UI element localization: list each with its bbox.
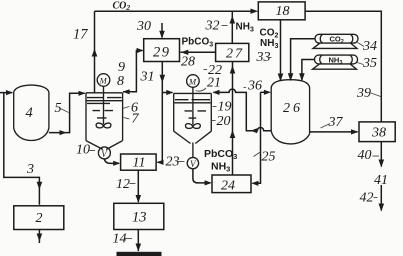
- svg-text:4: 4: [26, 105, 33, 121]
- svg-text:13: 13: [132, 210, 147, 226]
- svg-text:32: 32: [205, 19, 220, 34]
- liquid level tank 19: [175, 100, 211, 118]
- stand for cylinder 34: [313, 43, 357, 48]
- svg-text:CO2: CO2: [113, 1, 131, 13]
- wire stream 36: vessel 26 bottom-left to tank 19: [214, 89, 272, 131]
- svg-text:3: 3: [26, 162, 34, 177]
- valve 10 circle: [98, 147, 110, 159]
- svg-text:35: 35: [362, 56, 377, 71]
- svg-text:28: 28: [181, 55, 195, 70]
- svg-text:26: 26: [283, 101, 303, 116]
- wire valve 23 to box 24: [193, 169, 211, 183]
- wire 28: from box 27 left into box 29 right: [181, 51, 216, 53]
- svg-text:25: 25: [262, 150, 276, 165]
- svg-text:39: 39: [356, 86, 371, 101]
- box 2: [14, 206, 64, 230]
- wire output below box 2: [38, 230, 40, 244]
- motor M tank 19: [187, 75, 200, 88]
- bottom apparatus bar (cropped): [117, 252, 162, 256]
- agitator shaft tank 6: [103, 86, 105, 124]
- wire line 17 vertical: [94, 11, 96, 92]
- wire stream 37: vessel 26 to box 38: [310, 131, 358, 133]
- arrow up on line 17: [92, 49, 98, 57]
- wire from tank6 top-right up to box 29 left (streams 8/9): [123, 51, 143, 92]
- agitator shaft tank 19: [192, 87, 194, 125]
- wire stream 5: vessel 4 to tank 6: [49, 93, 85, 132]
- box 13: [114, 203, 164, 229]
- wire box18 bottom down into vessel 26 (stream 33): [280, 20, 282, 80]
- svg-text:19: 19: [218, 100, 232, 115]
- svg-text:31: 31: [140, 70, 155, 85]
- svg-text:PbCO3: PbCO3: [204, 148, 237, 161]
- wire line 25: vertical down into box 24: [253, 92, 261, 183]
- tank 6 (reactor 1): [86, 93, 123, 150]
- wire feed arrow into vessel 26 left (from line 25): [261, 91, 270, 93]
- wire NH3 cylinder to vessel 26: [302, 60, 315, 81]
- wire CO2 header line: [95, 10, 257, 12]
- svg-text:23: 23: [166, 155, 180, 170]
- impeller tank 6: [96, 123, 111, 128]
- box 18: [258, 2, 305, 20]
- box 24: [212, 175, 251, 193]
- wire NH3 riser from box 27 to header: [231, 11, 233, 43]
- svg-text:42: 42: [360, 191, 374, 206]
- valve 23 circle: [187, 157, 198, 168]
- wire line from box 24 up to box 27: [232, 62, 234, 176]
- svg-text:17: 17: [73, 27, 88, 43]
- cylinder 35 NH3: [315, 55, 358, 64]
- liquid level tank 6: [87, 98, 123, 118]
- wire stream 31: box 29 bottom down, branch to tank 19, down to box 11: [158, 62, 173, 163]
- svg-text:30: 30: [136, 19, 151, 34]
- svg-text:37: 37: [328, 115, 344, 130]
- svg-text:M: M: [188, 77, 197, 87]
- impeller tank 19: [185, 124, 200, 129]
- box 11: [121, 154, 157, 170]
- wire output 41/42: [380, 185, 382, 211]
- svg-text:18: 18: [276, 4, 290, 19]
- svg-text:7: 7: [132, 112, 140, 127]
- svg-text:40: 40: [358, 148, 372, 163]
- svg-text:12: 12: [116, 177, 130, 192]
- svg-text:36: 36: [247, 79, 262, 94]
- motor M tank 6: [97, 74, 110, 87]
- svg-text:38: 38: [371, 126, 386, 141]
- vessel 26: [271, 80, 309, 144]
- wire CO2 cylinder to vessel 26: [291, 39, 315, 80]
- svg-text:8: 8: [117, 74, 124, 89]
- box 29: [144, 39, 180, 62]
- svg-text:24: 24: [221, 179, 235, 194]
- svg-text:10: 10: [76, 143, 90, 158]
- vessel 4: [14, 85, 49, 140]
- svg-text:PbCO3: PbCO3: [182, 37, 214, 49]
- svg-text:11: 11: [133, 156, 146, 171]
- svg-text:21: 21: [207, 76, 221, 91]
- cylinder 34 CO2: [315, 34, 358, 43]
- svg-text:5: 5: [55, 101, 62, 116]
- wire output 40 below box 38: [380, 142, 382, 167]
- box 27: [216, 43, 249, 61]
- wire box18 right to right header down to box 38: [305, 11, 381, 122]
- wire stream 30 arrow into box 29: [161, 23, 163, 38]
- svg-text:20: 20: [217, 114, 231, 129]
- svg-text:14: 14: [113, 232, 127, 247]
- wire feed into vessel 4 and down to box 2 (stream 3): [0, 93, 39, 205]
- svg-text:34: 34: [362, 39, 377, 54]
- wire box 13 down (stream 14): [137, 230, 139, 252]
- wire valve 10 to box 11: [104, 159, 119, 164]
- svg-text:M: M: [99, 76, 108, 86]
- svg-text:2: 2: [36, 211, 43, 226]
- svg-text:9: 9: [118, 60, 125, 75]
- svg-text:29: 29: [153, 45, 171, 61]
- wire box 11 down to box 13 (stream 12): [137, 170, 139, 202]
- svg-text:27: 27: [226, 47, 244, 62]
- arrow into box 18: [251, 9, 259, 14]
- stand for cylinder 35: [313, 64, 357, 69]
- box 38: [359, 122, 395, 142]
- tank 19 (reactor 2): [174, 93, 212, 157]
- svg-text:41: 41: [374, 173, 388, 188]
